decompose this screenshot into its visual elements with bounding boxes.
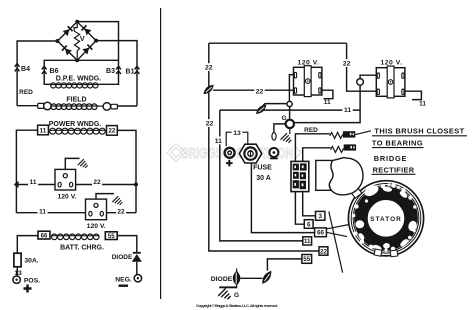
stator lamination ticks bottom — [374, 249, 382, 256]
ground terminal G assembly — [289, 107, 291, 120]
svg-text:DIODE: DIODE — [112, 254, 133, 261]
terminal box 22 — [319, 247, 328, 255]
svg-text:NEG.: NEG. — [115, 276, 132, 283]
junction connector (wire nut, receptacle 1 neutral) — [287, 101, 292, 106]
svg-text:11: 11 — [30, 179, 37, 186]
svg-text:B3: B3 — [106, 68, 115, 75]
wire: receptacle 1 neutral down to junction — [289, 75, 293, 102]
connector B4 — [15, 64, 20, 72]
bullet connector male with bar — [269, 148, 278, 157]
diode: bridge lower-right — [82, 45, 92, 55]
svg-text:Copyright © Briggs & Stratton,: Copyright © Briggs & Stratton, LLC. All … — [196, 303, 278, 308]
svg-text:RED: RED — [304, 127, 318, 134]
wire 22 from receptacle 2 to right bus — [107, 212, 137, 214]
wire: power winding right to receptacle bus right vertical — [117, 130, 136, 212]
svg-text:13: 13 — [233, 130, 241, 137]
svg-text:DIODE: DIODE — [211, 276, 233, 283]
wire 22 from receptacle 1 to right bus — [76, 184, 136, 186]
wire: bridge top node to B3 lead down to D.P.E. winding right end — [77, 22, 118, 85]
svg-text:22: 22 — [205, 65, 213, 72]
bullet connector (receptacle 2 neutral) — [357, 79, 364, 86]
diode: bridge lower-left — [62, 46, 72, 56]
bullet connector female — [272, 133, 276, 141]
diode: bridge upper-left — [63, 26, 73, 36]
svg-text:120 V.: 120 V. — [57, 193, 76, 200]
svg-text:22: 22 — [343, 61, 351, 68]
wire: top 22 bus — [209, 42, 347, 44]
junction dot on right bus — [134, 183, 138, 187]
wire: branch from splice to junction — [263, 104, 287, 106]
svg-text:30 A: 30 A — [256, 175, 271, 182]
wire: receptacle 2 neutral to bullet connector — [360, 75, 376, 78]
wire: 22 vertical bus down to terminal box 22 — [209, 43, 319, 251]
svg-text:RED: RED — [19, 89, 33, 96]
svg-text:22: 22 — [320, 248, 328, 255]
stator lead (long diagonal) — [329, 211, 343, 272]
svg-text:22: 22 — [108, 128, 116, 135]
svg-text:G: G — [281, 115, 286, 122]
wire: 22 drop to receptacle 2 — [347, 43, 377, 91]
svg-text:V: V — [80, 34, 85, 43]
junction arrow on left bus — [14, 181, 19, 188]
svg-text:RECTIFIER: RECTIFIER — [373, 165, 415, 174]
svg-text:BRIDGE: BRIDGE — [374, 154, 408, 163]
diode: bridge upper-right — [81, 25, 91, 35]
wire: 22 branch to receptacle 1 — [213, 89, 294, 91]
wire: connector block to terminal box 6 — [295, 192, 304, 225]
svg-text:D.P.E. WNDG.: D.P.E. WNDG. — [56, 76, 101, 83]
wire: brush 2 lead into connector — [303, 148, 331, 162]
svg-text:POS.: POS. — [24, 278, 40, 285]
brush 2 (resistor + brush block) — [331, 146, 344, 152]
svg-text:TO BEARING: TO BEARING — [372, 138, 423, 147]
wire: G to bullet pair — [274, 124, 286, 132]
node: bridge top — [75, 20, 79, 24]
terminal box 3 — [316, 211, 325, 220]
wire: bullet down then left to ground terminal G — [294, 85, 360, 122]
wire: receptacle 1 lead 11 hook — [322, 90, 333, 99]
wire: fuse down to terminal box 66 — [251, 163, 314, 233]
brush 1 (resistor + brush block) — [330, 132, 343, 138]
ground symbol (receptacle 1) — [78, 159, 88, 168]
node: bridge left — [55, 39, 59, 43]
terminal box 55 — [302, 255, 312, 264]
terminal box 11 — [303, 237, 312, 245]
wire: 11 bus vertical down to terminal box 11 — [220, 110, 303, 241]
connector block (bridge rectifier plug) — [291, 161, 309, 191]
svg-text:STATOR: STATOR — [370, 216, 402, 223]
wire: batt chrg right down to diode — [117, 236, 137, 253]
wire: receptacle 2 lead 11 hook — [405, 91, 422, 99]
connector B6 — [42, 66, 47, 74]
wire: bridge right node to B1 vertical down to field right end — [96, 41, 137, 106]
svg-text:B1: B1 — [126, 68, 135, 75]
wire: brush 1 lead into connector — [295, 134, 329, 162]
receptacle 2 (schematic 120V outlet) — [86, 199, 107, 220]
terminal box 66 — [315, 228, 327, 237]
ground symbol (receptacle 2) — [112, 196, 122, 205]
wire: bridge bottom node to B6 vertical down to D.P.E. winding left end — [44, 60, 118, 84]
svg-text:11: 11 — [324, 99, 331, 106]
wire: long 11 lead to receptacle area — [220, 109, 360, 111]
wire: receptacle 1 ground — [65, 158, 79, 169]
wire: bridge left node to B4 vertical down to field row — [17, 41, 57, 106]
svg-text:11: 11 — [419, 100, 426, 107]
svg-text:11: 11 — [39, 208, 46, 215]
brush holder housing — [316, 158, 363, 195]
fuse holder 30A (right half) — [239, 144, 261, 163]
receptacle 1 (schematic 120V outlet) — [55, 169, 76, 190]
watermark Briggs & Stratton — [167, 144, 301, 163]
wire: connector block to terminal box 3 — [303, 192, 316, 216]
stator lamination marker upper-left — [350, 186, 362, 198]
node: bridge bottom — [75, 58, 79, 62]
wire 11 to receptacle 1 — [16, 184, 55, 186]
svg-text:POWER WNDG.: POWER WNDG. — [49, 121, 102, 128]
varistor V inside bridge — [74, 24, 80, 59]
stator winding leads to box 66 — [327, 225, 349, 229]
ground symbol G (bottom) — [219, 286, 237, 288]
svg-text:22: 22 — [206, 121, 214, 128]
svg-text:BATT. CHRG.: BATT. CHRG. — [60, 245, 104, 252]
svg-text:11: 11 — [215, 138, 222, 145]
svg-text:22: 22 — [117, 209, 125, 216]
terminal POS with + — [13, 276, 20, 283]
wire: terminal box 55 to diode splice — [267, 259, 302, 271]
terminal box 6 — [304, 220, 313, 229]
svg-text:120 V.: 120 V. — [87, 223, 106, 230]
svg-text:55: 55 — [303, 256, 311, 263]
svg-text:11: 11 — [304, 238, 311, 245]
svg-text:FUSE: FUSE — [253, 165, 272, 172]
svg-text:B6: B6 — [50, 68, 59, 75]
diode (batt chrg) — [133, 252, 141, 254]
svg-text:11: 11 — [40, 127, 47, 134]
svg-text:G: G — [234, 292, 239, 299]
divider line between diagram halves — [160, 8, 162, 299]
terminal NEG with - — [134, 275, 141, 282]
terminal box 55 (batt chrg right) — [105, 232, 117, 240]
splice on 11 lead — [254, 103, 268, 117]
svg-text:FIELD: FIELD — [66, 96, 86, 103]
bridge rectifier diamond (voltage regulator) — [57, 22, 96, 61]
svg-text:6: 6 — [307, 221, 311, 228]
wire: power winding left to receptacle bus left vertical — [16, 130, 37, 213]
svg-text:THIS BRUSH CLOSEST: THIS BRUSH CLOSEST — [374, 127, 464, 136]
node: bridge right — [94, 39, 98, 43]
terminal box 11 (power winding left) — [38, 125, 49, 135]
fuse 30A (left) — [14, 253, 21, 267]
wire: receptacle 2 ground — [96, 194, 114, 200]
svg-text:22: 22 — [256, 88, 264, 95]
terminal + (right half) — [225, 148, 235, 158]
svg-text:30A.: 30A. — [24, 257, 38, 264]
splice on 22 bus — [202, 83, 216, 97]
ground symbol under G — [289, 128, 291, 134]
svg-text:55: 55 — [108, 234, 115, 240]
svg-text:66: 66 — [41, 233, 48, 239]
terminal box 66 (batt chrg left) — [38, 231, 50, 239]
svg-text:66: 66 — [317, 230, 325, 237]
terminal box 22 (power winding right) — [107, 126, 118, 136]
svg-text:3: 3 — [318, 213, 322, 220]
wire: splice to diode — [241, 277, 263, 279]
wire: batt chrg left down to fuse — [17, 236, 38, 254]
splice at diode — [260, 269, 274, 286]
svg-text:11: 11 — [344, 107, 351, 114]
stator assembly — [348, 181, 423, 256]
leader: THIS BRUSH arrow — [355, 131, 371, 135]
svg-text:B4: B4 — [21, 66, 30, 73]
wire 11 to receptacle 2 — [16, 212, 85, 214]
svg-text:22: 22 — [93, 179, 101, 186]
